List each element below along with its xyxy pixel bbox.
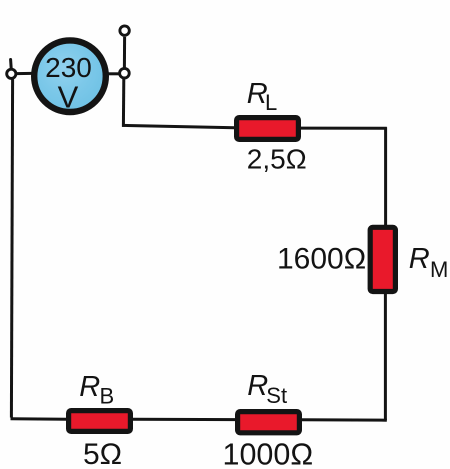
terminal: upper right [120,26,129,35]
svg-text:2,5Ω: 2,5Ω [247,143,307,174]
label RM [409,243,449,282]
label RSt [247,370,287,408]
wire: resistor RL to top-left corner [122,125,235,127]
wire: top-right corner to resistor RL [300,127,387,130]
label 1000 ohm [223,437,314,469]
terminal: left [7,69,16,78]
svg-text:St: St [266,383,287,408]
wire: resistor RB to resistor RSt [132,418,237,421]
label RB [79,371,114,408]
voltage source 230V [34,40,106,114]
wire: left terminal stub up [9,60,13,69]
svg-text:R: R [247,370,268,402]
label 5 ohm [83,438,122,469]
wire: left terminal to voltage source [17,72,32,75]
svg-text:1000Ω: 1000Ω [223,437,314,469]
wire: bottom-left corner to resistor RB [11,417,68,420]
wire: resistor RM up to top-right corner [384,127,387,227]
label RL [247,78,277,115]
label 2,5 ohm [247,143,307,174]
svg-text:5Ω: 5Ω [83,438,122,469]
svg-text:R: R [409,243,430,275]
svg-text:M: M [430,257,448,282]
svg-text:L: L [265,90,277,115]
resistor RL [237,118,299,140]
resistor RSt [238,412,300,433]
svg-text:230: 230 [45,52,92,83]
label 1600 ohm [277,243,366,276]
wire: left side down from terminal to bottom-left corner [11,80,12,418]
svg-text:V: V [58,80,79,115]
svg-text:1600Ω: 1600Ω [277,243,366,276]
wire: up from top-left corner to lower right terminal [122,79,125,127]
svg-text:R: R [79,371,100,403]
resistor RB [69,411,131,432]
wire: resistor RSt to bottom-right corner [301,418,387,421]
resistor RM [370,227,395,291]
terminal: lower right [120,68,130,78]
wire: right side bottom-right corner up to resistor RM [384,293,387,420]
wire: voltage source to lower right terminal [107,72,119,75]
svg-text:B: B [100,383,115,408]
wire: between the two right terminals [123,37,126,68]
